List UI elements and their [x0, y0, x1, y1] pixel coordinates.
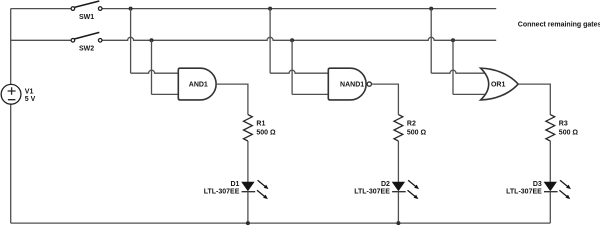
svg-text:V1: V1	[25, 88, 34, 95]
logic gate AND1	[178, 68, 216, 100]
wire: NAND lower input vertical	[291, 40, 293, 94]
svg-text:D1: D1	[230, 181, 239, 188]
wire: OR upper input horizontal (hops over lower input vertical)	[431, 70, 488, 73]
switch SW2	[71, 32, 102, 52]
switch SW1	[71, 1, 102, 21]
wire: AND upper input vertical	[130, 9, 132, 74]
svg-text:R3: R3	[559, 121, 568, 128]
svg-text:AND1: AND1	[189, 81, 208, 88]
node: D1 junction on bottom bus	[246, 221, 250, 225]
wire: left rail lower	[10, 104, 12, 223]
wire: D2 to bottom bus	[397, 192, 399, 223]
wire: OR lower input horizontal	[453, 93, 488, 95]
LED D3	[506, 180, 571, 199]
node: AND column tap on second bus	[150, 38, 154, 42]
logic gate OR1	[481, 68, 519, 100]
wire: second bus left segment	[11, 39, 71, 41]
wire: NAND1 output to R2	[372, 84, 398, 115]
svg-text:500 Ω: 500 Ω	[407, 130, 427, 137]
svg-text:5 V: 5 V	[25, 96, 36, 103]
logic gate NAND1	[328, 68, 371, 100]
wire: R1 to D1	[247, 141, 249, 182]
wire: NAND upper input horizontal (hops over lower input vertical)	[270, 70, 328, 73]
LED D2	[354, 180, 419, 199]
node: OR column tap on second bus	[451, 38, 455, 42]
svg-text:500 Ω: 500 Ω	[559, 130, 579, 137]
wire: left rail upper	[10, 9, 12, 85]
svg-text:D3: D3	[533, 181, 542, 188]
node: NAND column tap on second bus	[290, 38, 294, 42]
svg-text:D2: D2	[381, 181, 390, 188]
wire: NAND lower input horizontal	[292, 93, 328, 95]
node: NAND column tap on top bus	[268, 7, 272, 11]
svg-text:SW1: SW1	[79, 14, 94, 21]
wire: AND lower input horizontal	[152, 93, 179, 95]
wire: NAND upper input vertical	[269, 9, 271, 74]
svg-text:Connect remaining gates: Connect remaining gates	[518, 21, 600, 28]
wire: AND1 output to R1	[216, 84, 248, 115]
svg-text:LTL-307EE: LTL-307EE	[506, 189, 542, 196]
wire: R2 to D2	[397, 141, 399, 182]
wire: top supply bus left segment	[11, 8, 71, 10]
wire: second bus right of SW2 (hops over column verticals)	[102, 37, 496, 40]
svg-text:500 Ω: 500 Ω	[256, 130, 276, 137]
svg-text:OR1: OR1	[491, 81, 506, 88]
wire: D1 to bottom bus	[247, 192, 249, 223]
wire: OR1 output to R3	[518, 84, 550, 115]
LED D1	[204, 180, 269, 199]
resistor R1	[244, 115, 277, 141]
node: AND column tap on top bus	[129, 7, 133, 11]
resistor R3	[546, 115, 579, 141]
node: D2 junction on bottom bus	[396, 221, 400, 225]
wire: R3 to D3	[549, 141, 551, 182]
wire: bottom return bus	[11, 222, 551, 224]
wire: OR upper input vertical	[430, 9, 432, 74]
wire: AND upper input horizontal (hops over lower input vertical)	[131, 70, 179, 73]
voltage source V1	[1, 84, 35, 104]
svg-text:LTL-307EE: LTL-307EE	[204, 189, 240, 196]
svg-text:NAND1: NAND1	[340, 81, 364, 88]
svg-text:R2: R2	[407, 121, 416, 128]
resistor R2	[394, 115, 427, 141]
wire: AND lower input vertical	[151, 40, 153, 94]
svg-text:SW2: SW2	[79, 46, 94, 53]
node: OR column tap on top bus	[429, 7, 433, 11]
wire: top supply bus right of SW1	[102, 8, 496, 10]
wire: OR lower input vertical	[452, 40, 454, 94]
svg-text:R1: R1	[256, 121, 265, 128]
wire: D3 to bottom bus	[549, 192, 551, 223]
svg-text:LTL-307EE: LTL-307EE	[354, 189, 390, 196]
